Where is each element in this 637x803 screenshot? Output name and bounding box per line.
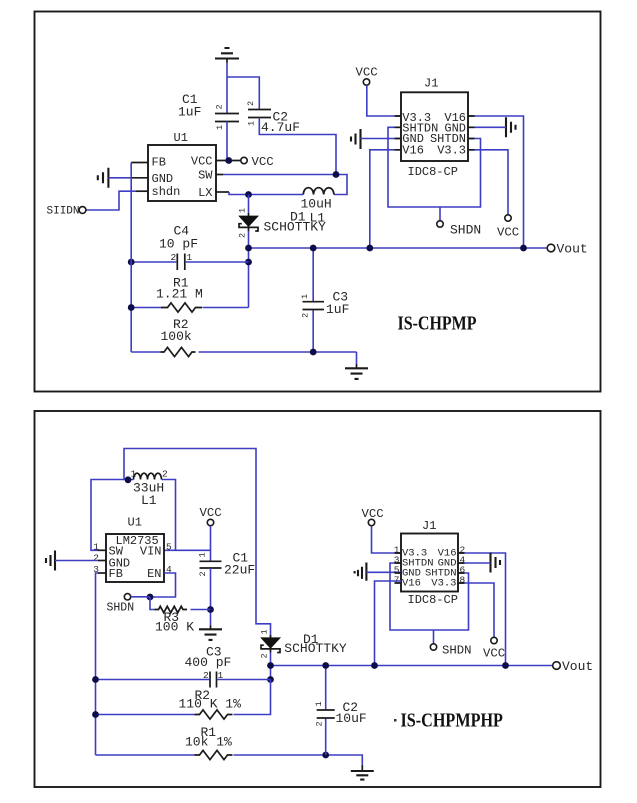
- wire (J1 V16-right down to net): [468, 116, 524, 248]
- capacitor C1: [178, 92, 239, 130]
- svg-text:J1: J1: [424, 77, 438, 91]
- port VCC (J1 right): [497, 215, 519, 240]
- svg-text:2: 2: [171, 252, 177, 263]
- wire (C2 down to SW net): [259, 118, 336, 175]
- svg-text:2: 2: [238, 233, 248, 238]
- svg-text:IS-CHPMPHP: IS-CHPMPHP: [401, 709, 503, 731]
- svg-text:1: 1: [260, 629, 270, 634]
- wire (SHDN stub b): [433, 630, 435, 644]
- svg-text:2: 2: [215, 104, 225, 109]
- svg-text:SCHOTTKY: SCHOTTKY: [264, 220, 327, 235]
- wire (J1 V3.3-right to VCC): [468, 150, 508, 215]
- wire (main output net): [249, 247, 548, 249]
- node VCC junction: [225, 157, 232, 164]
- svg-text:VCC: VCC: [200, 506, 222, 520]
- wire (FB net vertical): [130, 163, 132, 353]
- svg-text:SHDN: SHDN: [442, 643, 472, 657]
- svg-text:2: 2: [198, 571, 208, 576]
- port VCC (J1 top-left): [356, 66, 378, 86]
- svg-text:10uF: 10uF: [336, 711, 367, 726]
- wire (VCC to C1): [210, 526, 212, 561]
- svg-text:VCC: VCC: [483, 646, 505, 660]
- svg-text:SW: SW: [198, 169, 213, 183]
- svg-text:1: 1: [314, 701, 324, 706]
- svg-text:1: 1: [187, 252, 193, 263]
- port SHDN (J1): [437, 221, 481, 238]
- wire (J1b V16-right to net): [458, 553, 506, 666]
- node C3 right: [267, 676, 274, 683]
- svg-text:1: 1: [131, 469, 137, 480]
- svg-text:L1: L1: [141, 493, 157, 508]
- wire (GND pin to ground): [108, 177, 131, 179]
- pin stub FB: [131, 162, 148, 164]
- svg-text:GND: GND: [152, 172, 174, 186]
- svg-text:2: 2: [93, 553, 99, 564]
- wire SW net: [223, 175, 347, 195]
- svg-text:1: 1: [198, 552, 208, 557]
- wire (J1b GND-left): [366, 571, 401, 573]
- svg-text:1: 1: [215, 125, 225, 130]
- svg-text:400 pF: 400 pF: [185, 655, 232, 670]
- node C4 left: [128, 259, 135, 266]
- svg-text:Vout: Vout: [562, 659, 593, 674]
- ground (U1 GND pin): [98, 168, 109, 188]
- port VCC (J1b right): [483, 637, 505, 660]
- node V16-left/net b: [371, 662, 378, 669]
- pin stub FB (U1b): [98, 572, 106, 574]
- port SIIDN: [47, 206, 86, 218]
- node R2 left: [92, 711, 99, 718]
- svg-text:EN: EN: [147, 567, 161, 581]
- pin stub GND (U1b): [98, 560, 106, 562]
- svg-text:FB: FB: [152, 155, 166, 169]
- wire (branch to C2): [227, 77, 259, 109]
- svg-text:SCHOTTKY: SCHOTTKY: [284, 641, 347, 656]
- wire (J1 GND-left): [361, 138, 402, 140]
- svg-text:110 K 1%: 110 K 1%: [179, 697, 242, 712]
- connector J1: [401, 77, 468, 179]
- svg-text:VCC: VCC: [191, 155, 213, 169]
- port SHDN (U1b): [107, 594, 135, 615]
- svg-text:2: 2: [260, 653, 270, 658]
- node R1 left: [128, 304, 135, 311]
- port Vout (bottom): [553, 659, 594, 674]
- node V16-left/net: [366, 245, 373, 252]
- connector J1 (bottom): [394, 519, 466, 607]
- svg-text:100k: 100k: [161, 329, 192, 344]
- IC U1 (LM2735): [93, 516, 172, 583]
- wire (SHDN stub): [439, 207, 441, 221]
- wire (ground stem): [226, 58, 228, 63]
- svg-text:J1: J1: [422, 519, 436, 533]
- ground (J1 left): [351, 129, 361, 149]
- svg-text:LX: LX: [198, 186, 212, 200]
- svg-text:U1: U1: [174, 131, 188, 145]
- svg-text:10 pF: 10 pF: [159, 236, 198, 251]
- wire (J1 SHTDN-left loop): [388, 127, 481, 207]
- node R1/C2: [322, 752, 329, 759]
- wire (J1b SHTDN loop): [390, 563, 469, 630]
- diode D1 (schottky, bottom): [260, 629, 347, 679]
- svg-text:8: 8: [460, 575, 466, 586]
- svg-text:1: 1: [247, 121, 257, 126]
- svg-text:shdn: shdn: [152, 185, 181, 199]
- pin stub shdn: [136, 190, 148, 192]
- wire LX net: [229, 192, 303, 195]
- wire (C1 bottom to ground): [210, 568, 212, 626]
- resistor R1: [131, 275, 248, 312]
- ground (J1b left): [355, 563, 367, 581]
- svg-text:1: 1: [238, 208, 248, 213]
- port VCC (top): [241, 155, 274, 169]
- wire (SW net left): [91, 480, 134, 551]
- panel border (IS-CHPMPHP): [35, 411, 601, 787]
- capacitor C3: [300, 248, 349, 352]
- node C4 right: [245, 259, 252, 266]
- node D1/net: [245, 245, 252, 252]
- svg-text:V3.3: V3.3: [431, 578, 456, 590]
- node LX/D1: [245, 191, 252, 198]
- port VCC (C1 top): [200, 506, 222, 526]
- svg-text:10k 1%: 10k 1%: [185, 734, 232, 749]
- pin stub VCC: [216, 160, 241, 162]
- wire (SHDN to node): [131, 596, 150, 598]
- diode D1 (schottky): [238, 195, 327, 308]
- inductor L1 (33uH): [131, 469, 169, 509]
- node C1/R3: [207, 606, 214, 613]
- resistor R2 (110K): [96, 680, 271, 720]
- wire (GND pin to ground): [55, 560, 98, 562]
- ground (C1/R3): [199, 629, 222, 640]
- svg-text:SHDN: SHDN: [450, 222, 481, 237]
- wire (FB net down): [96, 573, 99, 755]
- capacitor C2: [246, 101, 300, 135]
- capacitor C2 (10uF): [314, 666, 367, 756]
- wire (J1b V3.3-right to VCC): [458, 583, 494, 637]
- pin stub SW: [216, 174, 223, 176]
- svg-text:2: 2: [203, 670, 209, 681]
- svg-text:1uF: 1uF: [178, 105, 201, 120]
- node C3 top: [310, 245, 317, 252]
- svg-text:V3.3: V3.3: [437, 143, 466, 157]
- svg-text:4.7uF: 4.7uF: [261, 120, 300, 135]
- node D1/net: [267, 662, 274, 669]
- svg-text:V16: V16: [402, 578, 421, 590]
- wire (EN to SHDN/R3): [150, 573, 176, 597]
- svg-text:VCC: VCC: [252, 155, 274, 169]
- ground (U1b GND): [46, 551, 55, 571]
- svg-text:VCC: VCC: [497, 225, 519, 239]
- svg-text:2: 2: [162, 469, 168, 480]
- node SHDN/R3: [147, 594, 154, 601]
- pin stub LX: [216, 191, 229, 193]
- node V16-right/net b: [502, 662, 509, 669]
- wire (L1 pin2 to VIN): [162, 480, 211, 551]
- wire (J1b V16-left to net): [375, 581, 402, 666]
- capacitor C1 (22uF): [198, 551, 256, 578]
- node V16-right/net: [520, 245, 527, 252]
- svg-text:Vout: Vout: [557, 241, 588, 256]
- port Vout (top): [547, 241, 588, 256]
- resistor R1 (10k): [96, 725, 363, 771]
- svg-text:IS-CHPMP: IS-CHPMP: [398, 312, 477, 334]
- svg-text:VIN: VIN: [140, 544, 162, 558]
- wire (C1 to VCC node): [226, 122, 228, 161]
- node L1 pin1: [125, 476, 132, 483]
- svg-text:IDC8-CP: IDC8-CP: [408, 593, 458, 607]
- wire (bottom output net): [271, 665, 553, 667]
- node C2 top: [322, 662, 329, 669]
- svg-text:U1: U1: [128, 516, 142, 530]
- svg-text:1.21 M: 1.21 M: [156, 287, 203, 302]
- svg-text:22uF: 22uF: [224, 563, 255, 578]
- stray mark before title: [394, 719, 397, 722]
- svg-text:V16: V16: [402, 143, 424, 157]
- resistor R3: [150, 597, 211, 635]
- svg-text:SIIDN: SIIDN: [47, 206, 80, 218]
- svg-text:100 K: 100 K: [155, 620, 194, 635]
- svg-text:IDC8-CP: IDC8-CP: [408, 165, 458, 179]
- svg-text:5: 5: [166, 541, 172, 552]
- resistor R2: [131, 317, 356, 368]
- wire (shdn to SIIDN port): [86, 191, 137, 210]
- svg-text:2: 2: [301, 313, 311, 318]
- wire (J1b GND-right): [458, 562, 491, 564]
- port SHDN (J1b): [430, 643, 471, 657]
- svg-text:SHDN: SHDN: [107, 602, 135, 615]
- wire (J1 GND-right): [468, 126, 506, 128]
- svg-text:2: 2: [246, 101, 256, 106]
- wire (VCC to J1b pin1): [372, 526, 402, 553]
- svg-text:VCC: VCC: [356, 66, 378, 80]
- svg-text:2: 2: [315, 721, 325, 726]
- IC U1 (charge pump regulator): [148, 131, 216, 201]
- wire (J1 V16-left down to net): [370, 150, 401, 248]
- pin stubs J1 (bottom): [395, 553, 465, 583]
- capacitor C4: [131, 224, 248, 271]
- node C3 left: [92, 676, 99, 683]
- wire (top loop): [124, 449, 271, 638]
- pin stubs J1: [395, 116, 475, 150]
- pin stub GND: [131, 177, 148, 179]
- port VCC (J1b top-left): [362, 507, 384, 526]
- ground (R2/C3): [345, 368, 368, 379]
- capacitor C3 (400pF): [96, 645, 271, 688]
- wire (VCC to J1 pin1): [367, 85, 401, 116]
- svg-text:1: 1: [218, 670, 224, 681]
- inductor L1: [301, 188, 334, 226]
- svg-text:FB: FB: [109, 567, 123, 581]
- node SW/C2: [333, 171, 340, 178]
- svg-text:1uF: 1uF: [326, 302, 349, 317]
- pin stub SW (U1b): [98, 549, 106, 551]
- ground (R1): [351, 771, 374, 780]
- ground (J1 right): [506, 117, 516, 137]
- ground (J1b right): [491, 553, 501, 573]
- ground (top, inverted): [215, 48, 239, 59]
- svg-text:VCC: VCC: [362, 507, 384, 521]
- svg-text:1: 1: [300, 294, 310, 299]
- node C3 bottom: [310, 349, 317, 356]
- panel border (IS-CHPMP): [35, 12, 601, 392]
